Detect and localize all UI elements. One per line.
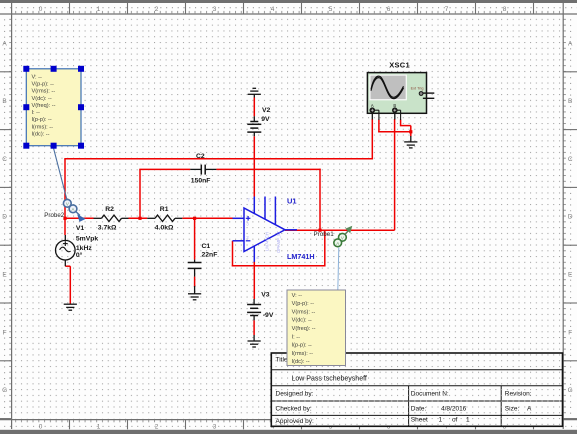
svg-text:C2: C2 [196,153,205,160]
svg-text:E: E [568,272,573,279]
svg-text:V(dc): --: V(dc): -- [292,318,312,324]
svg-text:R1: R1 [160,206,169,213]
svg-text:3: 3 [213,424,217,431]
svg-text:A: A [371,103,374,108]
svg-text:I(rms): --: I(rms): -- [32,124,54,130]
svg-text:V: --: V: -- [32,74,42,80]
svg-text:Low Pass tschebeysheff: Low Pass tschebeysheff [292,376,367,383]
svg-text:V: V [66,202,69,207]
svg-text:V(rms): --: V(rms): -- [32,89,56,95]
svg-text:A: A [568,40,573,47]
svg-text:3: 3 [213,6,217,13]
svg-text:2: 2 [155,424,159,431]
svg-text:B: B [2,98,6,105]
svg-text:I(p-p): --: I(p-p): -- [32,117,52,123]
svg-text:Probe2: Probe2 [44,212,65,219]
svg-text:Checked by:: Checked by: [276,405,312,412]
svg-text:B: B [568,98,572,105]
svg-text:F: F [568,329,572,336]
svg-text:C: C [2,156,7,163]
svg-text:A: A [2,40,7,47]
svg-text:5: 5 [329,6,333,13]
svg-text:F: F [3,329,7,336]
svg-text:0°: 0° [76,251,83,259]
svg-text:C: C [568,156,573,163]
svg-text:9V: 9V [261,116,270,123]
svg-text:B: B [393,103,396,108]
svg-text:4: 4 [271,6,275,13]
svg-text:A: A [336,241,339,246]
svg-text:I(rms): --: I(rms): -- [292,351,314,357]
svg-text:5mVpk: 5mVpk [76,235,99,242]
svg-text:of: of [452,417,458,424]
svg-text:V(freq): --: V(freq): -- [32,103,56,109]
svg-text:2: 2 [155,6,159,13]
svg-text:0: 0 [39,424,43,431]
svg-text:Size:: Size: [505,405,520,412]
svg-text:V2: V2 [262,107,271,114]
svg-text:D: D [2,214,7,221]
svg-text:D: D [568,214,573,221]
svg-text:I(dc): --: I(dc): -- [292,359,310,365]
svg-text:I(p-p): --: I(p-p): -- [292,343,312,349]
svg-text:XSC1: XSC1 [389,60,410,69]
svg-text:Designed by:: Designed by: [276,391,314,398]
svg-text:Revision:: Revision: [505,391,532,398]
svg-text:V(p-p): --: V(p-p): -- [32,81,55,87]
svg-text:V3: V3 [261,292,270,299]
svg-text:6: 6 [387,6,391,13]
svg-text:V(p-p): --: V(p-p): -- [292,301,315,307]
svg-text:U1: U1 [287,197,297,206]
svg-text:G: G [568,387,573,394]
svg-text:0: 0 [39,6,43,13]
svg-text:V: V [341,236,344,241]
svg-text:A: A [527,405,532,412]
svg-text:Probe1: Probe1 [314,231,335,238]
svg-text:1: 1 [97,424,101,431]
svg-text:Date:: Date: [411,405,427,412]
svg-text:Document N:: Document N: [411,391,449,398]
svg-text:Approved by:: Approved by: [276,418,314,425]
svg-text:LM741CH: LM741CH [265,232,270,251]
svg-text:V(rms): --: V(rms): -- [292,309,316,315]
svg-text:8: 8 [503,6,507,13]
svg-text:LM741H: LM741H [287,252,315,261]
svg-text:1: 1 [97,6,101,13]
svg-text:1: 1 [466,417,470,424]
svg-text:150nF: 150nF [191,178,211,185]
svg-text:A: A [72,207,75,212]
svg-text:Sheet: Sheet [411,417,428,424]
svg-text:C1: C1 [202,243,211,250]
svg-text:4.0kΩ: 4.0kΩ [155,225,174,232]
svg-text:I: --: I: -- [292,334,301,340]
svg-text:3.7kΩ: 3.7kΩ [98,225,117,232]
svg-text:7: 7 [445,6,449,13]
svg-text:V1: V1 [76,225,85,232]
svg-text:4/8/2016: 4/8/2016 [441,405,467,412]
svg-text:Ext Trig: Ext Trig [411,87,424,91]
svg-text:22nF: 22nF [202,251,218,258]
svg-text:V: --: V: -- [292,293,302,299]
svg-text:-9V: -9V [263,312,274,319]
svg-text:I(dc): --: I(dc): -- [32,132,50,138]
svg-text:I: --: I: -- [32,110,41,116]
svg-text:G: G [2,387,7,394]
svg-text:R2: R2 [105,206,114,213]
svg-text:V(freq): --: V(freq): -- [292,326,316,332]
svg-text:OPAMP_5T: OPAMP_5T [276,231,281,253]
svg-text:E: E [2,272,7,279]
svg-text:V(dc): --: V(dc): -- [32,96,52,102]
svg-text:1: 1 [439,417,443,424]
